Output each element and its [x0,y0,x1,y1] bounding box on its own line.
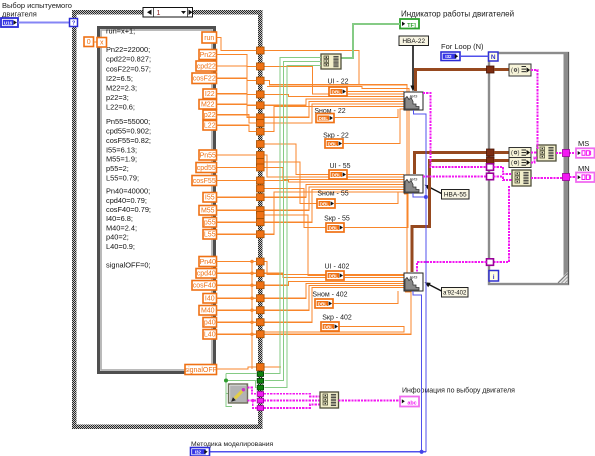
indicator UI - 402 [326,271,344,280]
svg-text:run=x+1;: run=x+1; [106,27,135,36]
wire UI-402 [344,275,404,277]
wire MN out [531,177,563,179]
tunnel (numeric) [257,307,265,314]
svg-text:p40: p40 [204,320,216,327]
formula output cpd55 [196,163,217,173]
wire: trunk [251,262,253,370]
svg-text:L22=0.6;: L22=0.6; [106,103,135,112]
svg-text:): ) [518,151,520,157]
wire UI-55 [347,174,404,176]
wire [217,94,257,106]
svg-text:M40: M40 [201,308,215,315]
tunnel (numeric) [257,102,265,109]
formula output I40 [203,294,217,304]
svg-text:): ) [518,161,520,167]
svg-text:I55: I55 [205,195,215,202]
svg-text:signalOFF=0;: signalOFF=0; [106,261,151,270]
wire (55 group) [265,185,405,198]
svg-text:p40=2;: p40=2; [106,233,129,242]
wire boolean 1 [265,58,322,374]
wire [494,159,509,162]
svg-text:DBL: DBL [329,273,339,278]
wire [217,309,257,311]
svg-text:x: x [100,40,104,47]
indicator Sном - 55 [317,199,335,208]
tunnel cluster 2 [487,173,494,180]
tunnel (numeric) [257,114,265,121]
wire [217,66,257,81]
svg-text:UI - 22: UI - 22 [327,79,348,86]
formula output Pn55 [199,150,217,160]
svg-text:I32: I32 [445,54,452,59]
wire string out 3 [264,405,320,409]
tunnel (numeric) [257,194,265,201]
wire HBA-22 (cluster) [416,70,487,92]
svg-text:Pn22=22000;: Pn22=22000; [106,45,150,54]
write/simulate icon (pencil) [229,384,248,403]
tunnel (numeric) [257,77,265,84]
tunnel а92-402 [487,157,495,164]
wire [217,261,257,263]
wire: I32 to N [460,55,489,57]
function Bundle MN [512,170,531,186]
junction (string) [251,399,254,402]
function icon (boolean array) [321,54,341,69]
tunnel HBA-55 [487,149,495,156]
svg-text:M55: M55 [201,208,215,215]
tunnel MS [563,150,570,157]
svg-text:TF]: TF] [407,23,416,29]
constant 0 [84,37,94,47]
wire (55 group) [265,162,318,204]
svg-text:I40=6.8;: I40=6.8; [106,214,133,223]
svg-text:Pn55: Pn55 [200,152,216,159]
subVI АИЗ-402 [404,273,423,291]
wire MN out 2 [570,176,577,178]
wire (55 group) [265,215,327,276]
svg-text:signalOFF: signalOFF [185,367,217,374]
tunnel (numeric) [257,219,265,226]
svg-text:cosF22=0.57;: cosF22=0.57; [106,64,151,73]
svg-text:Индикатор работы двигателей: Индикатор работы двигателей [401,10,514,19]
wire boolean to write icon [226,393,229,395]
svg-text:cpd22=0.827;: cpd22=0.827; [106,55,151,64]
wire: TF boolean [341,24,400,58]
wire boolean in-case 2 [226,380,257,382]
wire (402 group) [265,273,405,277]
for loop resize corner [557,272,568,283]
svg-text:Sкр - 402: Sкр - 402 [322,315,352,322]
wire int АИЗ-22 down [414,110,427,452]
wire [217,154,257,156]
tunnel (numeric) [257,212,265,219]
tunnel (numeric) [257,231,265,238]
tunnel (numeric) [257,185,265,192]
svg-text:M22: M22 [201,102,215,109]
formula output L40 [203,330,217,340]
svg-text:cosF40=0.79;: cosF40=0.79; [106,205,151,214]
wire [217,55,257,67]
svg-text:L40=0.9;: L40=0.9; [106,242,135,251]
wire: signalOFF [217,367,257,369]
svg-text:Pn55=55000;: Pn55=55000; [106,117,150,126]
wire idx2 to MS [531,152,537,154]
wire [217,115,257,123]
svg-text:L22: L22 [204,123,216,130]
indicator UI - 22 [329,87,347,96]
wire boolean 3 [265,66,322,388]
svg-text:Pn40: Pn40 [200,259,216,266]
wire [217,321,257,323]
wire (402 group) [265,288,405,323]
wire boolean 2 [265,62,322,381]
wire cluster [494,177,513,181]
svg-text:U16: U16 [4,21,13,26]
wire (22 group) [265,104,405,123]
wire int АИЗ-55 down [413,193,426,197]
wire (55 group) [265,192,405,234]
tunnel (numeric) [257,319,265,326]
tunnel (numeric) [257,152,265,159]
wire Sкр-55 [344,194,408,228]
wire (22 group) [265,99,405,105]
svg-text:I55=6.13;: I55=6.13; [106,145,137,154]
svg-text:DBL: DBL [318,301,328,306]
svg-text:For Loop (N): For Loop (N) [441,42,484,51]
function icon (format string) [320,392,339,408]
tunnel (numeric) [257,47,265,54]
tunnel (numeric) [257,128,265,135]
svg-text:cpd22: cpd22 [197,63,216,70]
wire (55 group) [265,189,327,228]
wire Sном-55 [335,192,398,204]
U16 control terminal [1,18,18,27]
control I32 Методика моделирования [191,448,210,456]
tunnel (numeric) [257,270,265,277]
case structure border [72,10,263,15]
svg-text:1: 1 [157,10,161,17]
wire string 2 [248,400,258,402]
wire (402 group) [265,286,405,311]
svg-text:Pn40=40000;: Pn40=40000; [106,187,150,196]
wire [217,233,257,235]
wire [217,221,257,223]
formula output L22 [203,121,217,131]
svg-text:p22: p22 [204,112,216,119]
function Index Array 2 [509,148,531,158]
wire string out 1 [264,394,320,397]
svg-text:DBL: DBL [332,89,342,94]
wire boolean in-case 1 [226,373,257,375]
wire (55 group) [265,144,330,175]
tunnel (numeric) [257,164,265,171]
formula output run [202,32,217,43]
tunnel (numeric) [257,295,265,302]
tunnel signalOFF [257,364,265,371]
arrow HBA-55 [428,187,442,194]
svg-text:а'92-402: а'92-402 [443,291,467,297]
svg-text:MS: MS [578,139,589,148]
indicator Sкр - 55 [326,223,344,232]
wire (22 group) [265,102,405,118]
svg-text:p55=2;: p55=2; [106,164,129,173]
junction (int) [420,450,424,454]
svg-text:L55=0.79;: L55=0.79; [106,174,139,183]
wire string to indicator [339,400,401,402]
formula output p22 [203,110,217,120]
svg-text:Sном - 55: Sном - 55 [317,191,348,198]
for loop border [489,53,568,284]
TF indicator terminal [400,19,419,29]
svg-text:run: run [204,35,214,42]
indicator Sкр - 402 [321,322,339,331]
wire boolean in-case vertical [226,374,232,407]
tunnel (numeric) [257,207,265,214]
wire Sном-22 [334,109,398,118]
wire string 3 [253,401,257,409]
svg-text:cpd40=0.79;: cpd40=0.79; [106,196,147,205]
indicator MS [576,148,595,158]
tunnel (numeric) [257,331,265,338]
formula output I55 [203,193,217,203]
wire а92-402 (cluster) [412,161,487,273]
formula node script text [106,27,151,270]
svg-text:I40: I40 [205,296,215,303]
wire [217,209,257,211]
svg-text:cpd55: cpd55 [197,165,216,172]
wire string 1 [248,388,258,394]
case selector label [143,8,193,18]
function Index Array 3 [509,158,531,168]
svg-text:(: ( [511,161,513,167]
for loop N terminal [489,52,499,61]
wire [217,125,257,131]
indicator UI - 55 [329,170,347,179]
svg-text:Pn22: Pn22 [200,52,216,59]
arrow а92-402 [428,284,442,291]
svg-text:M40=2.4;: M40=2.4; [106,223,137,232]
svg-text:cosF55: cosF55 [193,178,216,185]
svg-text:Sкр - 55: Sкр - 55 [324,216,350,223]
wire int Методика [209,451,426,453]
wire [217,196,257,198]
wire int АИЗ-402 down [413,291,422,452]
tunnel (numeric) [257,282,265,289]
arrow HBA-22 [412,46,414,88]
wire cluster MN down [487,186,510,262]
formula output signalOFF [185,365,217,375]
subVI АИЗ-22 [404,92,423,110]
tunnel (numeric) [257,159,265,166]
wire: 0 to x [94,41,98,43]
wire [494,68,509,71]
wire (402 group) [265,262,405,275]
svg-text:L40: L40 [204,332,216,339]
wire (55 group) [265,190,405,223]
tunnel (numeric) [257,91,265,98]
svg-text:Информация по выбору двигателя: Информация по выбору двигателя [402,387,515,395]
tunnel (string) [257,398,263,403]
wire idx1 to MS [531,70,538,148]
formula output cpd22 [196,61,217,71]
wire (55 group) [265,187,405,210]
wire [217,104,257,117]
wire Sкр-402 [265,327,405,333]
formula output p55 [203,218,217,228]
svg-text:(: ( [511,68,513,74]
wire [217,167,257,169]
wire HBA-55 (cluster) [415,153,487,175]
control I32 For Loop N [441,52,460,61]
svg-text:cpd40: cpd40 [197,271,216,278]
formula output cosF55 [192,176,217,186]
wire [217,38,257,51]
svg-text:cosF40: cosF40 [193,283,216,290]
svg-text:L55: L55 [204,232,216,239]
wire label HBA-22 [399,36,429,46]
wire [267,87,409,176]
formula output cosF22 [192,73,217,84]
function Index Array 1 [509,64,531,76]
indicator MN [576,173,595,183]
wire [217,297,257,299]
svg-text:(: ( [511,151,513,157]
formula output L55 [203,230,217,240]
wire (402 group) [265,284,405,299]
wire [494,151,509,154]
svg-text:DBL: DBL [320,201,330,206]
wire Sном-402 [333,291,398,304]
formula output M55 [199,206,217,216]
tunnel (boolean) [257,372,263,377]
wire [217,333,257,335]
wire (22 group) [265,94,405,96]
wire: U16 to case selector [18,21,70,23]
svg-text:DBL: DBL [324,324,334,329]
formula output M40 [199,306,217,316]
wire (402 group) [265,282,405,286]
junction (int) [424,195,428,199]
svg-text:M22=2.3;: M22=2.3; [106,83,137,92]
svg-text:cpd55=0.902;: cpd55=0.902; [106,127,151,136]
svg-text:p55: p55 [204,220,216,227]
case selector tunnel [70,19,78,27]
svg-text:DBL: DBL [319,116,329,121]
svg-text:DBL: DBL [328,141,338,146]
wire (402 group) [265,292,412,334]
formula output Pn40 [199,257,217,267]
indicator Sном - 22 [316,114,334,123]
wire boolean in-case 3 [256,381,257,388]
formula output M22 [199,100,217,110]
svg-text:I22: I22 [205,91,215,98]
junction (boolean) [224,379,228,383]
svg-text:HBA-55: HBA-55 [444,192,467,199]
wire cluster АИЗ-55 [423,176,487,178]
formula output I22 [203,89,217,99]
svg-text:i: i [493,274,495,281]
wire [217,284,257,286]
wire label HBA-55 [442,190,470,200]
svg-text:p22=3;: p22=3; [106,93,129,102]
tunnel MN [563,174,570,181]
svg-text:): ) [518,68,520,74]
function Bundle MS [537,145,556,161]
tunnel HBA-22 [487,66,495,73]
tunnel (numeric) [257,141,265,148]
tunnel (numeric) [257,258,265,265]
subVI АИЗ-55 [404,175,423,193]
svg-text:M55=1.9;: M55=1.9; [106,155,137,164]
wire [217,78,257,94]
svg-text:cosF22: cosF22 [193,76,216,83]
tunnel (boolean) [257,385,263,390]
formula node frame [99,28,215,373]
svg-text:DBL: DBL [332,172,342,177]
wire cluster АИЗ-402 [417,262,487,273]
svg-text:abc: abc [407,400,416,406]
svg-text:UI - 402: UI - 402 [325,263,350,270]
svg-text:DBL: DBL [329,225,339,230]
tunnel (string) [257,406,263,411]
formula output p40 [203,318,217,328]
formula output cosF40 [192,281,217,291]
wire run [265,51,408,274]
tunnel cluster 1 [487,164,494,171]
svg-text:Sном - 402: Sном - 402 [312,292,347,299]
wire idx3 to MS [531,158,537,163]
tunnel (numeric) [257,120,265,127]
svg-text:I22=6.5;: I22=6.5; [106,74,133,83]
svg-text:I32: I32 [195,450,202,455]
wire cluster [494,167,513,174]
tunnel cluster 3 [487,259,494,266]
wire label а'92-402 [442,288,469,298]
svg-text:HBA-22: HBA-22 [402,38,425,45]
svg-text:UI - 55: UI - 55 [329,163,350,170]
svg-text:cosF55=0.82;: cosF55=0.82; [106,136,151,145]
indicator Sкр - 22 [325,139,343,148]
formula output cpd40 [196,269,217,279]
formula input x [97,38,107,48]
string indicator terminal abc [400,397,419,407]
svg-text:0: 0 [87,39,91,46]
wire (22 group) [265,81,408,92]
wire UI-22 [347,91,404,93]
wire (55 group) [265,155,405,177]
tunnel (numeric) [257,177,265,184]
svg-text:N: N [491,54,496,61]
svg-text:MN: MN [578,164,590,173]
tunnel (numeric) [257,63,265,70]
for loop i terminal [489,271,499,282]
wire (55 group) [265,181,405,183]
indicator Sном - 402 [315,299,333,308]
wire Sкр-22 [343,109,404,144]
wire (55 group) [265,168,405,180]
wire [217,180,257,182]
wire cluster АИЗ-22 [423,93,487,167]
formula output Pn22 [199,50,217,60]
wire string out 2 [264,400,320,402]
wire [217,272,257,274]
wire signalOFF out [265,366,282,368]
wire (22 group) [265,107,405,132]
wire MS out [556,152,576,154]
wire (22 group) [265,66,405,94]
tunnel (boolean) [257,378,263,383]
tunnel (string) [257,392,263,397]
